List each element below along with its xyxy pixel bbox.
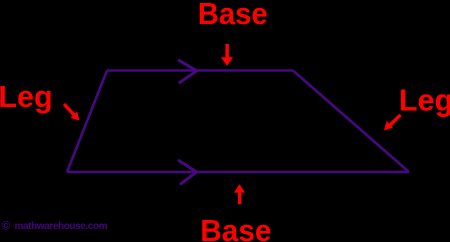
svg-text:Leg: Leg [399, 84, 450, 118]
svg-text:©: © [2, 219, 11, 233]
left leg (wire) [67, 71, 107, 173]
red arrow pointing down-right to left leg [64, 104, 80, 121]
svg-text:Base: Base [198, 0, 268, 31]
bottom base (wire) [67, 171, 409, 174]
svg-text:mathwarehouse.com: mathwarehouse.com [15, 221, 108, 232]
red arrow pointing down-left to right leg [384, 115, 401, 131]
top base (wire) [107, 69, 293, 72]
parallel-mark arrowhead on bottom base [178, 160, 197, 185]
svg-text:Leg: Leg [0, 80, 53, 114]
svg-text:Base: Base [200, 214, 271, 242]
trapezoid outline (top base, right leg, bottom base, left leg) [67, 71, 409, 173]
right leg (wire) [293, 71, 409, 173]
red arrow pointing up to bottom base [234, 184, 245, 204]
red arrow pointing down to top base [221, 44, 233, 66]
parallel-mark arrowhead on top base [178, 60, 197, 83]
